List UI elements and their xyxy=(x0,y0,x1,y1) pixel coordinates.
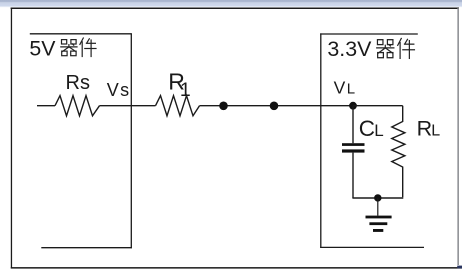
junction dot at ground node xyxy=(374,194,381,201)
resistor RL (lead + zigzag + lead) xyxy=(392,106,405,198)
right frame line (gray) xyxy=(457,8,459,265)
wire: left stub into Rs xyxy=(37,105,55,107)
resistor Rs xyxy=(55,96,100,116)
wire: R1 to VL node xyxy=(200,105,354,107)
top header band xyxy=(0,0,462,7)
svg-text:L: L xyxy=(431,123,440,140)
box: 3.3V device (bottom edge) xyxy=(320,246,424,248)
node VL junction dot xyxy=(349,102,357,110)
svg-text:L: L xyxy=(374,121,383,140)
left frame line xyxy=(11,8,12,269)
box: 5V device (right edge) xyxy=(130,34,132,249)
svg-text:5V: 5V xyxy=(29,37,56,61)
svg-text:3.3V: 3.3V xyxy=(327,37,372,61)
svg-text:Vs: Vs xyxy=(107,80,131,100)
box: 3.3V device (top edge) xyxy=(320,33,418,35)
top frame rule xyxy=(11,8,459,10)
wire: stub to ground xyxy=(377,198,379,216)
label: 3.3V box CJK 器件 xyxy=(377,38,415,58)
box: 5V device (bottom edge) xyxy=(41,247,132,249)
resistor R1 xyxy=(156,96,200,116)
wire: bottom rail xyxy=(352,197,403,199)
wire: capacitor CL to bottom rail xyxy=(352,153,354,198)
wire: VL down to capacitor CL xyxy=(352,106,354,144)
svg-text:1: 1 xyxy=(180,79,191,101)
capacitor CL (plates) xyxy=(342,143,365,146)
box: 5V device (top edge) xyxy=(30,33,132,35)
junction dot 1 xyxy=(219,102,228,111)
label: 5V box CJK 器件 xyxy=(61,38,96,57)
ground symbol xyxy=(366,216,392,219)
wire: VL to RL branch (top) xyxy=(353,105,403,107)
svg-text:R: R xyxy=(417,117,433,141)
junction dot 2 xyxy=(270,102,279,111)
svg-text:C: C xyxy=(359,116,375,141)
box: 3.3V device (left edge) xyxy=(320,33,322,248)
wire: Rs to R1 xyxy=(100,105,156,107)
bottom frame line xyxy=(11,267,462,269)
svg-text:L: L xyxy=(347,81,355,98)
svg-text:Rs: Rs xyxy=(66,72,90,94)
svg-text:V: V xyxy=(334,77,346,97)
bottom-right corner tick xyxy=(457,266,462,269)
